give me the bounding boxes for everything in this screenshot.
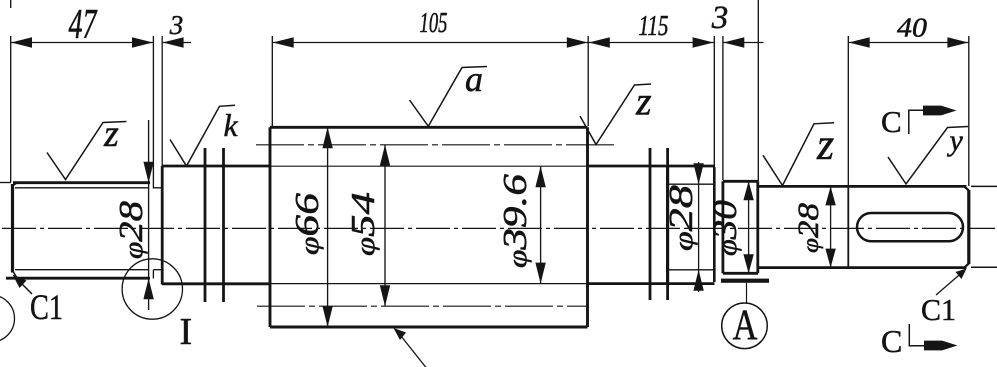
dim phi54 line (384, 145, 386, 306)
bearing position line S2-a (204, 148, 207, 302)
dim 3R outside arrow and tail (723, 37, 744, 47)
thread minor line bottom (15, 269, 149, 271)
worm root line bottom phi39.6 (271, 283, 587, 285)
S4 step face (666, 166, 669, 284)
svg-text:C1: C1 (921, 292, 956, 327)
dim 105 line (272, 42, 588, 44)
dim phi66 top arrow (322, 127, 332, 148)
keyway slot (857, 213, 963, 241)
dim phi28-S1 line (148, 120, 150, 310)
roughness symbol k on S2 (170, 105, 235, 166)
dim 47 / 3 shared arrow (132, 37, 153, 47)
svg-text:φ28: φ28 (113, 201, 150, 259)
section C top thick arrow (923, 106, 957, 116)
section S1 left end face with chamfer C1 (11, 184, 14, 273)
phi30 bottom edge (723, 272, 758, 275)
right section top edge (758, 185, 967, 188)
dim 3 left extension line b (161, 36, 163, 166)
ext line 40 left (847, 36, 849, 186)
dim 3 left extension line a (152, 36, 154, 189)
dim 40 right arrow (947, 37, 968, 47)
dim 115/3 shared right arrow (693, 37, 714, 47)
worm left edge (269, 127, 272, 327)
dim 47 left arrow (11, 37, 32, 47)
svg-text:105: 105 (420, 7, 448, 39)
ext line 105 left (271, 36, 273, 126)
dim phi39.6 line (540, 166, 542, 283)
svg-text:40: 40 (897, 13, 928, 43)
section S2 bottom edge (162, 282, 271, 285)
dim phi54 bottom arrow (380, 285, 390, 306)
right end face (967, 190, 970, 264)
C1 left leader arrow (18, 280, 32, 294)
keyway section boundary (847, 186, 849, 267)
clipped line fragment bottom right (971, 266, 997, 268)
svg-text:C: C (881, 104, 902, 139)
worm right edge (586, 127, 589, 327)
svg-text:C1: C1 (30, 287, 63, 327)
groove1 inner top line (153, 187, 162, 189)
dim 105 left arrow (273, 37, 294, 47)
dim 40 line (848, 42, 969, 44)
phi30 top edge (723, 180, 758, 183)
datum A leader (746, 283, 748, 303)
groove1 bottom vertical (152, 270, 154, 279)
dim phi28-mid top arrow (693, 163, 703, 184)
bearing position line S4-b (666, 148, 669, 300)
svg-text:A: A (733, 301, 758, 348)
svg-text:φ28: φ28 (663, 185, 700, 251)
dim phi28-S1 bottom arrow (143, 278, 153, 299)
dim 3R extension b (722, 36, 724, 180)
section C bottom thick arrow (924, 341, 958, 351)
detail circle I around groove1 (122, 259, 182, 319)
svg-text:φ54: φ54 (345, 192, 382, 256)
svg-text:3: 3 (711, 0, 729, 36)
phi28 mid top line (668, 183, 715, 185)
svg-text:115: 115 (639, 10, 669, 42)
worm pitch line bottom phi54 (257, 305, 589, 307)
C1 right leader (936, 273, 962, 296)
edge stub at image left (0, 182, 11, 184)
svg-text:C: C (881, 323, 902, 359)
extension line 47 left (10, 36, 12, 182)
roughness symbol a on worm (410, 67, 488, 127)
shaft centerline (2, 227, 995, 229)
roughness symbol z on S1 (47, 122, 127, 180)
dim phi28-S1 top arrow (143, 162, 153, 183)
worm pitch line top phi54 (256, 144, 616, 146)
dim 47 line (11, 42, 154, 44)
svg-text:a: a (465, 59, 483, 99)
dim phi28-right top arrow (825, 186, 835, 205)
section S4 bottom edge (588, 282, 715, 285)
svg-text:φ66: φ66 (289, 193, 326, 255)
clipped extension stub top left (10, 0, 12, 8)
section S2 top edge (162, 165, 271, 168)
ext line 105 right / 115 left (587, 36, 589, 126)
datum A circle (722, 303, 768, 349)
svg-text:φ30: φ30 (707, 200, 744, 256)
dim phi30 bottom arrow (743, 254, 753, 273)
groove2 left edge (713, 167, 716, 282)
svg-text:z: z (635, 79, 652, 124)
dim phi66 bottom arrow (322, 306, 332, 327)
bearing position line S2-b (222, 148, 225, 302)
dim 3 left outside arrow and tail (163, 37, 184, 47)
dim phi66 line (327, 127, 329, 327)
dim 3R extension a (713, 36, 715, 168)
phi30 right face (756, 181, 759, 273)
groove1 inner bottom line (153, 269, 162, 271)
worm bottom edge phi66 (270, 326, 588, 329)
ext line 40 right (968, 36, 970, 186)
section S1 bottom edge (6, 277, 150, 280)
section C bottom bracket (909, 324, 924, 346)
dim 40 left arrow (849, 37, 870, 47)
section S2 left face (161, 166, 164, 285)
dim phi28-mid bottom arrow (693, 270, 703, 291)
dim 115 left arrow (589, 37, 610, 47)
svg-text:z: z (103, 113, 119, 155)
section S1 top edge (13, 181, 150, 184)
dim phi30 line (748, 181, 750, 273)
section S4 top edge (588, 165, 715, 168)
datum A bar (721, 279, 769, 283)
dim phi28-mid line (698, 162, 700, 292)
right section bottom edge (758, 266, 967, 269)
worm root line top phi39.6 (271, 165, 587, 167)
svg-text:k: k (224, 107, 239, 143)
dim phi54 top arrow (380, 145, 390, 166)
worm top edge phi66 (270, 126, 588, 129)
svg-text:47: 47 (69, 2, 98, 48)
bearing position line S4-a (649, 148, 652, 300)
roughness symbol y (888, 127, 968, 185)
svg-text:I: I (179, 311, 192, 353)
svg-text:y: y (947, 124, 964, 157)
thread minor line top (15, 187, 149, 189)
partial detail circle at left edge (0, 295, 15, 342)
dim 115 line (588, 42, 713, 44)
dim phi30 top arrow (743, 181, 753, 200)
phi30 left face (722, 181, 725, 273)
phi28 mid bottom line (668, 269, 715, 271)
section C top bracket (909, 110, 924, 134)
svg-text:φ28: φ28 (792, 203, 825, 253)
svg-text:z: z (816, 120, 834, 169)
svg-text:φ39.6: φ39.6 (497, 174, 534, 268)
roughness symbol z3 (763, 123, 834, 186)
dim phi28-right bottom arrow (825, 249, 835, 268)
worm bottom leader (397, 331, 426, 367)
dim phi39.6 bottom arrow (535, 263, 545, 284)
dim 105 right arrow (567, 37, 588, 47)
dim phi39.6 top arrow (535, 166, 545, 187)
dim phi28-right line (830, 186, 832, 267)
roughness symbol z2 (580, 84, 651, 145)
svg-text:3: 3 (169, 10, 184, 40)
clipped line fragment top right (971, 185, 997, 187)
phi30 right face extension to top (757, 0, 759, 181)
